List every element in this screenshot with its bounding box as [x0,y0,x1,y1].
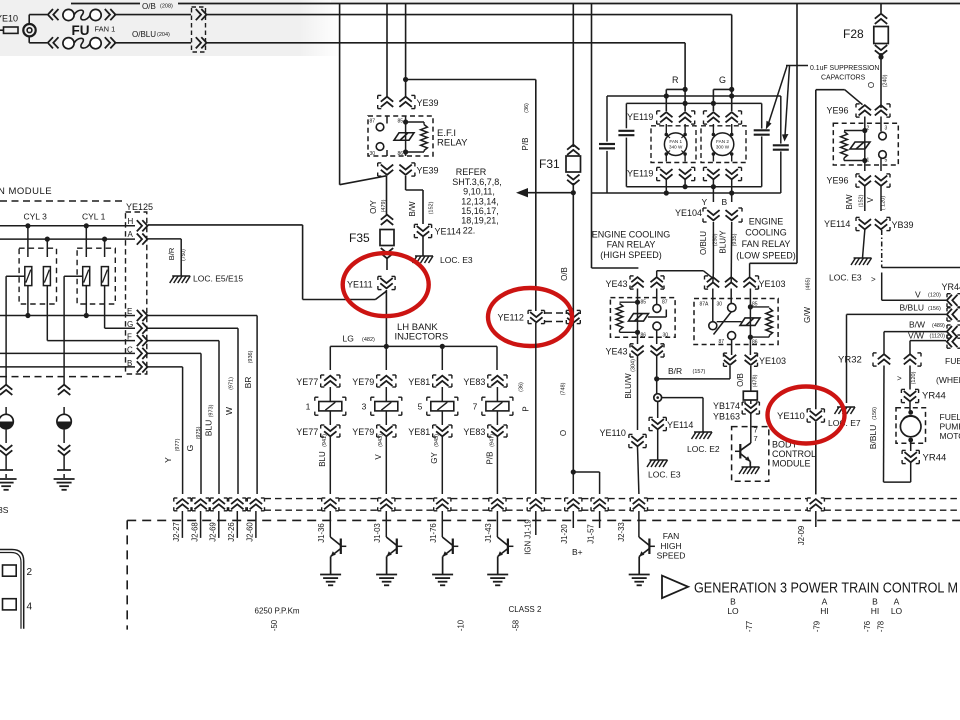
label N MODULE [0,186,52,197]
coil 2b [101,239,108,286]
wire YE10 to fuse bottom O/BLU [29,36,47,42]
svg-text:FU: FU [72,23,90,38]
label EFI pin 30 [370,151,376,157]
wire G/W corner top [816,90,863,105]
note REFER SHT [452,167,502,236]
svg-text:(947): (947) [490,434,496,447]
relay K-low-speed box [694,299,778,345]
wire PCM stub J2-26 [236,511,238,538]
label FP pin 1 [867,158,870,164]
label (304) [631,359,637,372]
connector YE119 top left [627,111,695,124]
node P/B branch [403,77,408,82]
label -77 [745,621,754,632]
svg-text:(936): (936) [248,350,254,363]
svg-text:F: F [127,333,132,342]
svg-text:YE77: YE77 [296,377,318,387]
connector plug2 chevrons [58,385,70,395]
arrow REFER to F31 wire [516,188,573,197]
connector YE110 (G/W) [777,409,824,422]
connector off-page V/W [947,335,960,348]
svg-text:CLASS 2: CLASS 2 [509,605,542,614]
label J2-60 [246,522,255,542]
wire B/R horizontal [657,366,730,379]
svg-text:B: B [127,359,132,368]
wire injector drop 1 [329,346,331,370]
svg-text:(482): (482) [362,337,375,343]
label J2-27 [172,522,181,542]
module BODY CONTROL MODULE box [732,427,769,482]
label splice V 120 [897,371,917,384]
connector PCM pin at x=237.3 [229,498,246,511]
label G [719,75,726,85]
label LH BANK INJECTORS [395,322,449,343]
svg-text:P/B: P/B [486,452,495,465]
wire coil2a to E [84,286,89,319]
label B/BLU (156) [900,303,942,313]
label GENERATION 3 POWER TRAIN CONTROL M [694,581,958,597]
svg-text:B: B [730,597,736,607]
svg-text:YE39: YE39 [417,98,439,108]
ring terminal eyelet [654,394,662,402]
ground J1-76 [432,575,453,586]
wire GY 945 [430,434,442,494]
label B/W (489) [909,320,945,330]
svg-text:J2-33: J2-33 [617,522,626,542]
svg-text:87: 87 [662,300,668,306]
wire R stub [664,87,688,111]
connector YE103 bottom [724,353,787,366]
svg-text:YB39: YB39 [892,220,914,230]
svg-text:J1-43: J1-43 [484,523,493,543]
connector plug1 chevrons lower [0,445,12,455]
connector PCM pin at x=386.3 [378,498,395,511]
svg-text:(479): (479) [381,199,387,212]
highlight ellipse YE112 [488,288,572,346]
symbol title triangle [662,576,688,599]
label HS pin 30 [663,333,669,339]
spark plug 2 gap [57,455,71,478]
svg-text:BLU: BLU [204,420,214,437]
svg-text:HI: HI [820,606,829,616]
label BODY CONTROL MODULE [772,440,816,469]
svg-text:V/W: V/W [908,331,924,341]
svg-text:HIGH: HIGH [660,541,681,551]
wire V to YR44 [882,273,946,301]
svg-text:YE114: YE114 [824,219,850,229]
relay LS switch [709,289,742,356]
label 3S [0,505,9,515]
label LS pin 85 [752,302,758,308]
ground LOC. E7 [828,407,861,428]
wire bus C [0,352,135,354]
spark plug 1 [0,407,13,443]
wire fuel pump return [884,463,911,482]
svg-text:(36): (36) [519,382,525,392]
connector YE111 [347,276,395,289]
ground LOC. E3 (fan) [647,460,681,480]
relay EFI contact [394,133,414,141]
wire YE43 right feed [657,271,713,279]
svg-text:(977): (977) [175,438,181,451]
wire O/B 478 [750,366,752,391]
fuse F35 [349,215,394,259]
svg-text:YR32: YR32 [838,355,862,366]
svg-text:YE103: YE103 [759,279,786,289]
label YE125 pin B [127,359,132,368]
connector YE110 (BLU/W) [600,428,647,448]
svg-text:(478): (478) [753,374,759,387]
label YE125 pin H [128,217,134,226]
svg-text:4: 4 [27,602,33,613]
svg-text:FAN RELAY: FAN RELAY [607,240,656,250]
svg-text:R: R [672,75,679,85]
label HS pin 87 [662,300,668,306]
wire coil1b to F [47,286,135,341]
ground J1-36 [320,575,341,586]
label O/B mid [560,267,569,281]
svg-text:O/BLU: O/BLU [699,231,708,255]
label O [559,430,568,436]
svg-text:(157): (157) [693,369,706,375]
connector PCM pin at x=497.4 [489,498,506,511]
connector YE104 [675,208,742,222]
wire F31 drop [572,4,574,148]
label BR (936) [243,350,254,388]
svg-text:12,13,14,: 12,13,14, [461,196,499,206]
label LS pin 30 [717,302,723,308]
relay HS coil [616,289,640,345]
label FP pin 5 [885,158,888,164]
connector YB174/YB163 [742,402,759,414]
label CLASS 2 [509,605,542,614]
svg-text:22.: 22. [463,226,476,236]
connector PCM pin at x=200.6 [192,498,209,511]
wire YR32 right [909,366,911,390]
wire PCM stub J1-57 [599,511,601,528]
label V/W (1120) [908,331,945,341]
svg-text:N MODULE: N MODULE [0,186,52,197]
label FUEL PUMP MOTOR [940,412,960,441]
svg-text:J1-57: J1-57 [587,524,596,544]
svg-text:YE119: YE119 [627,169,653,179]
svg-text:YE104: YE104 [675,208,702,218]
label EFI pin 86 [398,151,404,157]
connector PCM pin at x=182.4 [174,498,191,511]
svg-text:G: G [185,445,195,452]
svg-text:J2-68: J2-68 [190,522,199,542]
svg-text:FUEL: FUEL [945,356,960,366]
svg-text:3S: 3S [0,505,9,515]
label CYL 3 [24,212,48,222]
svg-text:(HIGH SPEED): (HIGH SPEED) [600,250,662,260]
fuse F28 [843,14,888,60]
svg-text:HI: HI [871,606,880,616]
wire G to W [148,328,238,494]
relay HS switch terminals [648,289,666,345]
connector YE10 ring terminal [0,24,36,36]
svg-text:BLU: BLU [318,451,327,467]
arrow to outer cap [782,66,790,142]
svg-text:V: V [866,197,875,203]
spark plug 1 gap [0,455,13,478]
label YE125 pin E [127,307,132,316]
label V (120) [915,290,941,300]
svg-text:CYL 1: CYL 1 [82,212,106,222]
spark plug 2 [57,407,71,443]
wire top border bus segment right [178,3,960,5]
label O/BLU (204) [132,30,170,39]
wire F to BLU [148,341,219,494]
svg-text:LG: LG [343,334,354,344]
label YB174 YB163 [713,401,740,422]
svg-text:YE96: YE96 [827,106,849,116]
connector PCM pin at x=442.3 [434,498,451,511]
injector 7 YE83 [473,387,513,425]
connector YE43 bottom [606,344,665,357]
label LS pin 87A [700,302,710,308]
connector PCM pin at x=255.9 [247,498,264,511]
svg-text:J2-69: J2-69 [209,522,218,542]
ground J1-03 [376,575,397,586]
label BLU/Y (935) [719,230,738,254]
note 0.1uF suppression capacitors [786,65,879,82]
transistor Q-J1-03 [386,537,402,574]
svg-text:(975): (975) [196,426,202,439]
transistor Q-J1-76 [442,537,458,574]
svg-text:C: C [127,346,133,355]
svg-text:O/B: O/B [560,267,569,281]
label EFI pin 87 [370,119,376,125]
svg-text:YE96: YE96 [827,176,849,186]
connector YE39 top [378,95,439,108]
wire fan returns [664,180,735,202]
connector off-page V [947,294,960,307]
label -76 [863,621,872,632]
label -79 [813,621,822,632]
label O/Y (479) [369,199,387,213]
connector PCM pin at x=599.6 [591,498,608,511]
svg-text:COOLING: COOLING [745,228,787,238]
svg-text:(36): (36) [524,103,530,113]
wire B/R from A [148,239,181,276]
label (36) P/B upper [521,103,530,151]
wire YE114 to ground [422,237,424,256]
connector PCM pin at x=815.8 [807,498,824,511]
node B+ split [571,469,576,474]
relay K-high-speed box [610,298,675,338]
relay FP coil [841,117,868,172]
svg-text:(943): (943) [378,434,384,447]
svg-text:YB174: YB174 [713,401,740,411]
svg-text:YR44: YR44 [942,282,960,292]
wire cap loop inner [626,103,761,186]
wire PCM stub J2-09 [815,511,817,527]
svg-text:YE83: YE83 [463,427,485,437]
svg-text:BLU/W: BLU/W [624,373,633,399]
svg-text:LOC. E2: LOC. E2 [687,444,720,454]
label J1-43 [484,523,493,543]
svg-text:85: 85 [398,119,404,125]
connector YE39 bottom [378,163,439,176]
wire BLU/W to PCM [638,447,639,494]
connector YE96 top [827,104,891,117]
svg-text:B/BLU: B/BLU [868,425,878,450]
svg-text:ENGINE: ENGINE [749,217,784,227]
connector YE125 pin B chevron [137,361,148,372]
wire G stub [711,87,735,111]
svg-text:J2-09: J2-09 [797,526,806,546]
svg-text:YE103: YE103 [759,356,786,366]
wire vertical to EFI diagonal [339,4,341,185]
connector plug2 chevrons lower [58,445,70,455]
wire PCM stub J1-43 [496,511,498,537]
svg-text:3: 3 [362,402,367,412]
svg-text:6250 P.P.Km: 6250 P.P.Km [255,607,300,616]
connector YE112 [498,310,581,323]
wire PCM stub J1-36 [329,511,331,537]
wire PCM stub J1-76 [441,511,443,537]
label -50 [270,619,279,631]
wire vertical EFI pin 87 [386,4,388,98]
connector YR32 [838,353,921,366]
svg-text:CONTROL: CONTROL [772,449,816,459]
ground J2-33 [629,575,650,586]
wire J1-57 branch [573,472,599,494]
svg-text:(489): (489) [932,323,945,329]
wire PCM stub J2-33 [638,511,640,537]
connector off-page B/W [947,325,960,338]
wire J1-20 stub [572,472,574,494]
connector PCM pin at x=638.9 [630,498,647,511]
connector plug1 chevrons [0,385,12,395]
svg-text:YE110: YE110 [600,428,626,438]
label J2-09 [797,526,806,546]
svg-text:B/W: B/W [845,194,854,210]
svg-text:YE77: YE77 [296,427,318,437]
label (748) [561,382,567,395]
svg-text:YE79: YE79 [352,427,374,437]
wire motor to YR44 lower [910,440,912,451]
svg-text:W: W [224,407,234,415]
svg-text:B/R: B/R [167,247,176,260]
wire vertical EFI pin 85 [405,4,407,98]
module PCM boundary dashed [127,520,960,629]
transistor Q-J1-43 [497,537,513,574]
ground J1-43 [487,575,508,586]
label IGN J1-19 [524,519,533,555]
connector YE77 bottom [296,425,340,437]
wire BLU 941 [318,434,330,494]
ground LOC. E3 (fp) [829,258,876,284]
wire B/BLU 156 [847,314,947,403]
svg-text:2: 2 [27,567,33,578]
svg-text:0.1uF SUPPRESSION: 0.1uF SUPPRESSION [810,65,879,72]
wire injector drop 4 [496,346,498,370]
wire injector drop 3 [441,346,443,370]
svg-text:J1-03: J1-03 [373,523,382,543]
svg-text:F28: F28 [843,27,864,41]
wire E to BR [148,316,257,495]
wire injector drop 2 [385,346,387,370]
svg-text:(WHEN: (WHEN [936,375,960,385]
svg-text:G/W: G/W [803,307,812,323]
svg-text:YE125: YE125 [126,202,153,212]
wire PCM stub J2-68 [200,511,202,538]
wire C to G [148,353,201,494]
connector off-page B/BLU [947,308,960,321]
svg-text:O/B: O/B [142,2,156,11]
motor FAN2 [701,124,746,163]
svg-text:Y: Y [163,457,173,463]
svg-text:(973): (973) [209,404,215,417]
connector YR44 lower [902,450,946,463]
connector PCM pin at x=535.8 [527,498,544,511]
svg-text:REFER: REFER [456,167,487,177]
component splice box YB [743,391,757,400]
label LS pin 87 [719,339,725,345]
wire PCM stub J2-69 [218,511,220,538]
label A HI [820,597,829,617]
connector YE125 pin F chevron [137,335,148,346]
wire plug2 tap [64,276,83,385]
connector YE125 pin A chevron [137,234,148,245]
ground BCM [739,467,760,474]
wire V dash-dot [882,230,960,268]
svg-text:18,19,21,: 18,19,21, [461,216,499,226]
svg-text:YE112: YE112 [498,313,524,323]
wire P to PCM [535,323,537,494]
svg-text:YE10: YE10 [0,14,18,24]
transistor Q-J2-33 fan high speed [639,537,655,574]
svg-text:FAN 1: FAN 1 [95,25,116,34]
label YR44 top [942,282,960,292]
connector YR44 upper [901,389,945,402]
svg-text:INJECTORS: INJECTORS [395,332,449,343]
svg-text:-50: -50 [270,619,279,631]
label J2-26 [227,522,236,542]
wire YE114 to LOC E3 [657,430,659,460]
svg-text:YE83: YE83 [463,377,485,387]
wire O/Y F35 [386,176,388,216]
wire B/R node [654,356,659,393]
label LS pin 86 [752,340,758,346]
svg-text:YE81: YE81 [408,427,430,437]
svg-text:B: B [722,197,728,207]
wire YE111 tap to YE125 pin H [148,225,386,300]
motor M-fuel-pump [896,408,926,443]
svg-text:7: 7 [473,402,478,412]
svg-text:YE79: YE79 [352,377,374,387]
label B/R (750) [167,247,187,261]
label EFI pin 85 [398,119,404,125]
relay FP switch terminals [879,117,887,172]
label G/W [803,307,812,323]
svg-text:RELAY: RELAY [437,138,468,149]
label BCM pin 7 7 [754,426,758,444]
label J1-36 [317,523,326,543]
label Y [702,197,708,207]
svg-text:YE114: YE114 [667,420,693,430]
svg-text:FAN RELAY: FAN RELAY [742,239,791,249]
label O (240) [867,74,889,88]
svg-text:87: 87 [370,119,376,125]
svg-text:(941): (941) [322,434,328,447]
connector YE125 pin C chevron [137,348,148,359]
svg-text:IGN J1-19: IGN J1-19 [524,519,533,555]
wire B/W 489 [884,331,946,333]
svg-text:-10: -10 [457,619,466,631]
